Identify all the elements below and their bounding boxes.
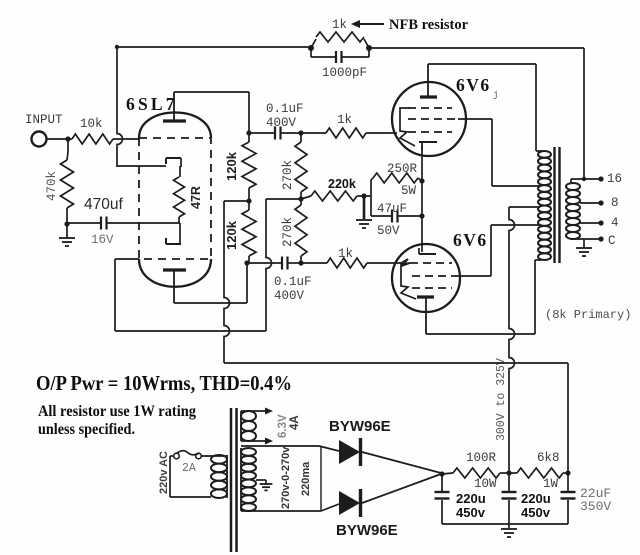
ground supply xyxy=(501,524,517,537)
label 10W xyxy=(474,477,497,491)
wire HV center tap xyxy=(256,480,266,484)
label 22uF 350V xyxy=(580,486,611,514)
resistor 100R 10W xyxy=(442,468,509,478)
label note line1 xyxy=(38,403,196,420)
label 1k upper xyxy=(337,113,352,127)
svg-text:O/P Pwr = 10Wrms, THD=0.4%: O/P Pwr = 10Wrms, THD=0.4% xyxy=(36,371,292,395)
wire B+ riser xyxy=(509,207,515,473)
wire B+ feed horizontal xyxy=(224,363,568,473)
svg-text:5W: 5W xyxy=(401,184,417,198)
resistor 47R xyxy=(174,166,185,223)
ground cathode network xyxy=(356,196,372,228)
label 6V6 bottom xyxy=(453,230,488,250)
svg-text:4A: 4A xyxy=(289,415,301,430)
node grid B coupling xyxy=(298,260,303,265)
resistor 250R 5W xyxy=(364,173,422,196)
node B+ raw xyxy=(439,471,444,476)
label 6k8 xyxy=(537,451,560,465)
6SL7 plate B xyxy=(163,270,186,303)
capacitor 0.1uF 400V upper xyxy=(249,127,301,140)
svg-text:47uF: 47uF xyxy=(377,202,407,216)
svg-text:6V6: 6V6 xyxy=(456,75,491,95)
6V6 top plate xyxy=(420,64,437,97)
label 10k xyxy=(80,117,103,131)
label 470k xyxy=(45,171,59,201)
wire screen top to OPT tap xyxy=(458,119,540,186)
node NFB left xyxy=(308,45,314,51)
wire ground rail xyxy=(442,523,568,525)
wire heater top xyxy=(241,408,273,415)
wire OPT secondary 16 tap xyxy=(571,176,604,183)
resistor 120k lower xyxy=(242,201,256,263)
wire plate B to coupling node xyxy=(174,263,247,303)
OPT core xyxy=(555,147,560,263)
node plate A xyxy=(246,130,251,135)
wire OPT secondary 8 tap xyxy=(580,200,604,205)
label 8k primary xyxy=(545,308,631,322)
6SL7 cathode A xyxy=(166,158,181,167)
label 270k upper xyxy=(281,160,295,190)
wire plate top to OPT xyxy=(428,64,536,151)
svg-text:0.1uF: 0.1uF xyxy=(274,275,312,289)
svg-text:16: 16 xyxy=(607,172,622,186)
svg-text:270k: 270k xyxy=(281,217,295,247)
label 47R xyxy=(189,186,203,209)
svg-text:10k: 10k xyxy=(80,117,103,131)
label 4A xyxy=(289,415,301,430)
capacitor 47uF 50V xyxy=(371,196,422,223)
svg-text:47R: 47R xyxy=(189,186,203,209)
wire OPT secondary 4 tap xyxy=(580,220,604,225)
resistor 120k upper xyxy=(242,133,256,201)
svg-text:8: 8 xyxy=(611,196,619,210)
node cathode bottom xyxy=(419,213,424,218)
resistor 470k xyxy=(61,139,74,224)
capacitor 0.1uF 400V lower xyxy=(247,257,301,270)
label 2A xyxy=(182,462,196,475)
label INPUT xyxy=(25,113,63,127)
label 220k xyxy=(328,177,356,191)
wire NFB top left xyxy=(117,46,312,48)
label BYW96E bottom xyxy=(336,522,398,539)
label 1000pF xyxy=(322,66,367,80)
label 120k lower xyxy=(224,220,239,250)
6SL7 plate A xyxy=(163,92,186,121)
wire B+ branch xyxy=(224,200,249,202)
svg-text:100R: 100R xyxy=(466,451,497,465)
label 300V to 325V xyxy=(495,358,508,441)
resistor 1k upper xyxy=(301,128,397,138)
label 250R xyxy=(387,162,418,176)
PT HV winding xyxy=(241,448,256,511)
capacitor 220u 450v second xyxy=(502,473,517,524)
svg-text:10W: 10W xyxy=(474,477,497,491)
wire HV top lead xyxy=(241,446,339,451)
label 6SL7 xyxy=(126,94,178,114)
wire OPT secondary C tap xyxy=(571,236,604,241)
label 1W xyxy=(543,477,559,491)
node cathode top xyxy=(419,178,424,183)
svg-text:270k: 270k xyxy=(281,160,295,190)
svg-text:6.3V: 6.3V xyxy=(277,414,289,438)
svg-text:350V: 350V xyxy=(580,499,611,514)
svg-text:220u: 220u xyxy=(521,491,551,506)
label tap 4 xyxy=(611,216,619,230)
svg-text:450v: 450v xyxy=(521,505,551,520)
svg-text:BYW96E: BYW96E xyxy=(329,418,391,435)
svg-text:2A: 2A xyxy=(182,462,196,475)
node B+ split xyxy=(246,198,251,203)
node input junction xyxy=(65,136,70,141)
svg-text:6V6: 6V6 xyxy=(453,230,488,250)
resistor 1k lower xyxy=(301,258,392,268)
node grid A coupling xyxy=(298,130,303,135)
wire HV bottom lead xyxy=(241,504,339,511)
svg-text:j: j xyxy=(493,90,498,100)
label 1k NFB xyxy=(332,18,347,32)
wire plate bottom to OPT xyxy=(426,260,541,334)
wire plate A to coupling node xyxy=(174,92,249,133)
label 270v-0-270v xyxy=(280,446,292,509)
node plate B coupling xyxy=(244,260,249,265)
fuse 2A xyxy=(174,451,227,459)
svg-text:120k: 120k xyxy=(224,151,239,181)
svg-text:INPUT: INPUT xyxy=(25,113,63,127)
svg-text:1W: 1W xyxy=(543,477,559,491)
label output power xyxy=(36,371,292,395)
6V6 bottom beam plate xyxy=(401,263,416,299)
label 1k lower xyxy=(338,247,353,261)
label 220u 450v first xyxy=(456,491,486,520)
svg-text:220u: 220u xyxy=(456,491,486,506)
PT primary winding xyxy=(211,455,227,498)
wire HV label box edge xyxy=(320,447,322,510)
wire OPT center tap xyxy=(509,206,540,208)
svg-text:(8k Primary): (8k Primary) xyxy=(545,308,631,322)
svg-text:220ma: 220ma xyxy=(300,461,312,496)
label 220ma xyxy=(300,461,312,496)
OPT primary winding xyxy=(536,151,551,260)
6V6 bottom grid dashes xyxy=(410,263,458,288)
label 50V xyxy=(377,224,400,238)
6V6 bottom plate xyxy=(417,297,434,334)
tube 6SL7 envelope xyxy=(139,113,211,287)
NFB resistor 1k xyxy=(311,32,369,48)
svg-text:1k: 1k xyxy=(337,113,352,127)
capacitor 22uF 350V xyxy=(561,473,576,524)
svg-text:C: C xyxy=(608,234,616,248)
svg-text:470uf: 470uf xyxy=(84,196,123,213)
svg-text:16V: 16V xyxy=(91,233,114,247)
6SL7 cathode B xyxy=(166,223,181,244)
ground HV center tap xyxy=(260,484,273,490)
svg-text:120k: 120k xyxy=(224,220,239,250)
label tap C xyxy=(608,234,616,248)
PT heater winding 6.3V xyxy=(241,411,256,441)
svg-text:6k8: 6k8 xyxy=(537,451,560,465)
label 0.1uF 400V upper xyxy=(266,102,304,130)
label 270k lower xyxy=(281,217,295,247)
svg-text:1000pF: 1000pF xyxy=(322,66,367,80)
wire screen bottom to OPT tap xyxy=(458,225,540,276)
svg-text:4: 4 xyxy=(611,216,619,230)
OPT secondary winding xyxy=(566,183,580,239)
svg-text:unless specified.: unless specified. xyxy=(38,421,135,438)
wire heater bottom xyxy=(241,438,273,445)
6V6 top grid dashes xyxy=(408,108,458,132)
svg-text:400V: 400V xyxy=(266,116,297,130)
wire NFB vertical to cathode xyxy=(117,47,166,167)
wire grid bottom entry xyxy=(392,259,410,266)
6V6 top cathode xyxy=(419,142,437,150)
arrow NFB xyxy=(351,20,384,28)
6V6 bottom cathode xyxy=(419,248,436,254)
resistor 10k xyxy=(68,134,140,144)
svg-text:All resistor use 1W rating: All resistor use 1W rating xyxy=(38,403,196,420)
svg-text:220k: 220k xyxy=(328,177,356,191)
node NFB right xyxy=(366,45,372,51)
tube 6V6 bottom envelope xyxy=(392,244,460,312)
label 470uf xyxy=(84,196,123,213)
svg-text:50V: 50V xyxy=(377,224,400,238)
resistor 6k8 1W xyxy=(509,468,568,478)
label 100R xyxy=(466,451,497,465)
svg-text:450v: 450v xyxy=(456,505,486,520)
svg-text:270v-0-270v: 270v-0-270v xyxy=(280,446,292,509)
label note line2 xyxy=(38,421,135,438)
wire grid B return xyxy=(115,259,266,331)
svg-text:220v AC: 220v AC xyxy=(158,451,170,494)
wire cathodes common xyxy=(421,145,423,252)
PT core xyxy=(231,408,237,552)
label 220v AC xyxy=(158,451,170,494)
ground OPT secondary xyxy=(576,239,592,256)
wire mains left xyxy=(170,456,211,497)
svg-text:1k: 1k xyxy=(332,18,347,32)
label 5W xyxy=(401,184,417,198)
resistor 270k upper xyxy=(295,133,307,199)
label NFB resistor xyxy=(389,17,469,33)
input jack xyxy=(32,132,47,147)
svg-text:0.1uF: 0.1uF xyxy=(266,102,304,116)
svg-text:6SL7: 6SL7 xyxy=(126,94,178,114)
label 0.1uF 400V lower xyxy=(274,275,312,303)
label 47uF xyxy=(377,202,407,216)
node filter out xyxy=(565,470,570,475)
node 220k ground xyxy=(361,193,366,198)
svg-text:470k: 470k xyxy=(45,171,59,201)
tube 6V6 top envelope xyxy=(392,82,466,156)
label BYW96E top xyxy=(329,418,391,435)
svg-text:400V: 400V xyxy=(274,289,305,303)
node filter mid xyxy=(506,470,511,475)
node divider xyxy=(298,196,303,201)
label 16V xyxy=(91,233,114,247)
label tap 16 xyxy=(607,172,622,186)
wire divider to grid return xyxy=(266,199,301,331)
diode BYW96E bottom xyxy=(339,474,441,517)
svg-text:250R: 250R xyxy=(387,162,418,176)
wire NFB to output tap xyxy=(369,48,584,179)
svg-text:NFB resistor: NFB resistor xyxy=(389,17,469,33)
label tap 8 xyxy=(611,196,619,210)
ground input xyxy=(59,224,75,246)
label 120k upper xyxy=(224,151,239,181)
wire B+ vertical left xyxy=(224,201,230,363)
resistor 270k lower xyxy=(295,199,307,263)
wire input to node xyxy=(46,138,68,140)
capacitor 220u 450v first xyxy=(435,474,450,524)
diode BYW96E top xyxy=(339,438,441,473)
node 470k bottom xyxy=(64,221,69,226)
svg-text:300V to 325V: 300V to 325V xyxy=(495,358,508,441)
svg-text:BYW96E: BYW96E xyxy=(336,522,398,539)
label 220u 450v second xyxy=(521,491,551,520)
label 6.3V xyxy=(277,414,289,438)
capacitor 470uf 16V xyxy=(67,217,180,230)
6V6 top beam plate xyxy=(400,108,415,146)
svg-text:1k: 1k xyxy=(338,247,353,261)
node NFB corner xyxy=(115,45,119,49)
capacitor 1000pF xyxy=(311,50,369,63)
label 6V6 top xyxy=(456,75,498,100)
resistor 220k xyxy=(301,191,364,201)
